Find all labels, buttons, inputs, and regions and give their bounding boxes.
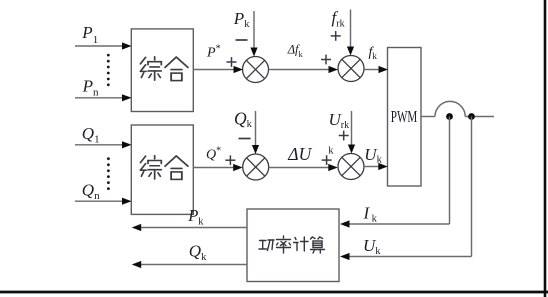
wire: P* from box1 to J1 [193, 66, 243, 73]
wire: P1 input [75, 42, 132, 49]
border: page right edge line [544, 0, 547, 297]
node: junction dot B [468, 113, 475, 120]
block U4: power calculation (功率计算) [247, 209, 339, 282]
wire: U-k feedback into power calc box [340, 253, 472, 260]
wire: Pk reference input (vertical into J1) [250, 11, 257, 57]
block U2: synthesis box 2 (综合) [131, 125, 193, 214]
svg-text:ΔU: ΔU [287, 144, 312, 164]
label: plus sign at J3 input [225, 155, 235, 165]
wire: Pn input [75, 94, 132, 101]
label: plus sign below f-rk [331, 31, 341, 41]
summing junction J1 [243, 57, 269, 83]
wire: U-rk reference input (vertical into J4) [348, 111, 355, 154]
label: minus sign at J3 top input [239, 138, 251, 140]
node: junction dot A (under hop) [446, 113, 453, 120]
label: 计 character [294, 237, 309, 251]
wire: delta-f-k from J1 to J2 [269, 66, 339, 73]
wire: hop (arc) over node line [435, 101, 465, 116]
label: 功 character [259, 240, 274, 251]
wire: U-k from J4 to PWM [364, 163, 388, 170]
wire: PWM output segment [421, 116, 435, 118]
block U1: synthesis box 1 (综合) [131, 29, 193, 112]
wire: Q-k output from power calc to left [132, 261, 247, 268]
label: plus sign at J4 left input [322, 155, 332, 165]
node: dotted ellipsis between P1 and Pn [107, 54, 110, 87]
label: 率 character [277, 236, 291, 253]
wire: vertical feedback line from dot B [471, 117, 473, 257]
summing junction J4 [338, 154, 364, 180]
svg-text:k: k [328, 146, 334, 157]
summing junction J3 [243, 154, 269, 180]
summing junction J2 [338, 56, 364, 82]
label: plus sign below U-rk [339, 131, 349, 141]
label: plus sign at J1 input [227, 57, 237, 67]
label: 综 character (box2) [140, 156, 161, 179]
wire: f-k from J2 to PWM [364, 66, 388, 73]
wire: Q* from box2 to J3 [193, 164, 242, 171]
node: dotted ellipsis between Q1 and Qn [107, 157, 110, 190]
wire: Qn input [75, 198, 132, 205]
label: 合 character (box1) [165, 57, 188, 80]
label: 合 character (box2) [165, 156, 188, 179]
block U3: PWM [388, 48, 422, 187]
wire: vertical feedback line from dot A [449, 117, 451, 225]
wire: I-k feedback into power calc box [340, 220, 450, 227]
label: 综 character (box1) [140, 57, 161, 80]
wire: Q1 input [75, 141, 132, 148]
border: page bottom edge line [0, 291, 548, 294]
label: plus sign at J2 left input [321, 55, 331, 65]
wire: delta-U from J3 to J4 [269, 164, 338, 171]
wire: Qk reference input (vertical into J3) [252, 111, 259, 154]
label: 算 character [311, 237, 325, 253]
wire: f-rk reference input (vertical into J2) [347, 10, 354, 56]
wire: output line after hop to right [465, 116, 494, 118]
svg-text:PWM: PWM [391, 107, 418, 126]
wire: P-k output from power calc to left [132, 224, 247, 231]
label: minus sign at J1 top input [236, 39, 248, 41]
